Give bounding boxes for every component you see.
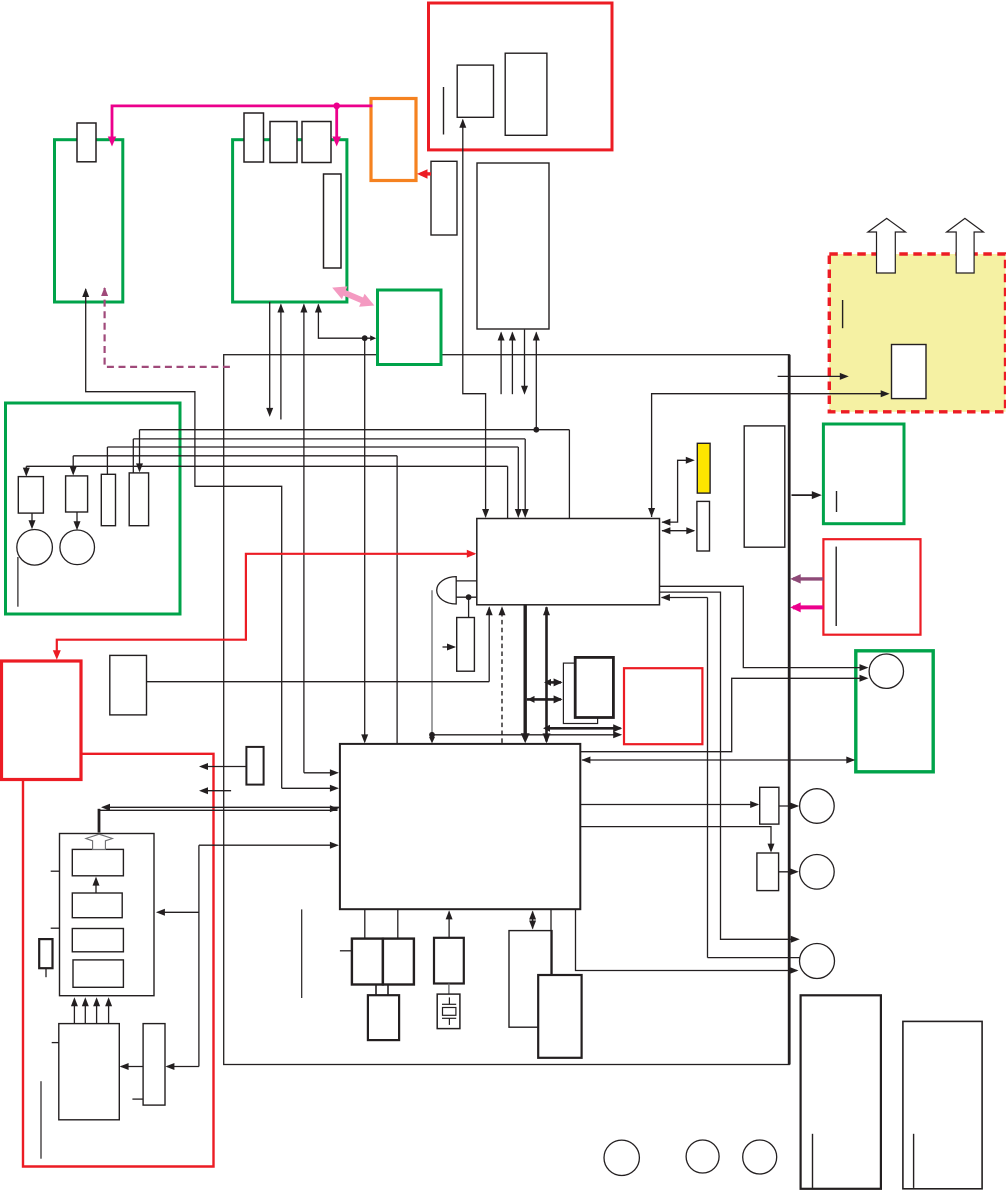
port box on green frame 1 [77, 123, 96, 162]
text mark in red frame [443, 87, 445, 135]
wire hub1 to box in yellow region [648, 390, 890, 517]
text mark in green frame A [836, 491, 838, 512]
short arrow pointing left [199, 787, 231, 794]
red wire hub1 to red box 5 [53, 550, 477, 660]
stub on left unit edge a [51, 870, 60, 872]
magenta clock wire [108, 103, 373, 147]
arrow into narrow box [443, 644, 457, 651]
arrow box A to circle 1 [29, 513, 36, 529]
wire green2 stub b [277, 304, 284, 420]
narrow box bottom-left [143, 1024, 165, 1106]
box below box pair [368, 995, 399, 1040]
relay box 1 [760, 787, 779, 824]
wire hub1 to small yellow box [661, 457, 694, 526]
red box 6 [624, 668, 702, 744]
small yellow box [697, 443, 710, 493]
bottom circle 3 [743, 1140, 777, 1174]
box below red frame [431, 161, 457, 235]
box 2 in red frame [505, 53, 547, 135]
tall box bottom right 1 [801, 995, 881, 1189]
wire green2 to hub2 [300, 304, 339, 777]
bidirectional wire hub1-hub2 [543, 606, 551, 743]
box pair left [352, 939, 383, 985]
stub below small thick box [45, 968, 47, 977]
pink bidirectional arrow [332, 286, 374, 306]
circle A [800, 789, 835, 824]
red frame right [823, 539, 920, 635]
wire from hub1 up into red frame [459, 119, 489, 518]
wire hub2 to relay box 1 [580, 801, 759, 808]
dashed status wire to green box 1 [101, 287, 233, 367]
bold arrow to stack b [527, 695, 563, 703]
port box A on green frame 2 [244, 113, 264, 162]
sub box 2 [72, 893, 122, 918]
box D in green frame 4 [129, 473, 148, 526]
crystal symbol [437, 994, 460, 1029]
wire green2 stub a [266, 302, 273, 417]
green frame 2 [233, 140, 347, 302]
wire bus line 2 [133, 439, 528, 518]
circle B [800, 855, 835, 890]
wire under tall box d to bus1 [533, 332, 540, 430]
hub box 2 [340, 744, 580, 909]
box C in green frame 4 [101, 474, 115, 525]
box mid-left [110, 655, 147, 715]
text mark in yellow region [842, 300, 844, 328]
wire crystal box to hub2 [446, 910, 453, 937]
sub box 4 [73, 960, 123, 987]
wire hub2 to thick box [550, 909, 552, 975]
wire hub1 to circle-c area [660, 592, 800, 943]
text mark in red frame right [835, 547, 837, 626]
text mark in tall box 2 [913, 1134, 915, 1188]
wire under tall box c [521, 330, 528, 395]
wire green2 to green box 3 and hub2 [315, 304, 376, 744]
crystal driver box [434, 938, 464, 984]
bold arrow to red box 6 [543, 724, 622, 732]
tall box bottom right 2 [903, 1021, 982, 1188]
orange box [371, 99, 416, 181]
green frame 3 [378, 290, 442, 365]
wire bus line 3 [107, 447, 521, 518]
magenta arrow from red frame [790, 602, 823, 612]
yellow dashed region [829, 254, 1005, 412]
small thick box left of unit [39, 939, 52, 968]
text mark below hub2 left [301, 909, 303, 998]
dashed wire into hub1 bottom [499, 606, 506, 744]
arrow into yellow region [778, 373, 849, 380]
wire under tall box b [509, 332, 516, 395]
thick box below hub2 [538, 975, 581, 1058]
outer boundary thick right edge [788, 355, 791, 1065]
sub box 1 [72, 849, 123, 875]
wire from green box 1 to hub 2 [82, 288, 339, 792]
stub to crystal [448, 984, 450, 995]
red outline around bottom-left unit [23, 754, 214, 1167]
stack box back [563, 663, 597, 723]
circle in green frame B [869, 654, 903, 688]
box 1 in red frame [457, 65, 493, 117]
box pair right [383, 939, 414, 985]
text mark in tall box 1 [812, 1134, 814, 1188]
narrow box below gate [457, 618, 475, 672]
narrow white box right of hub1 [697, 501, 710, 551]
bidirectional wire hub2 to box below [529, 911, 536, 930]
green frame A [823, 424, 904, 524]
box in yellow region [892, 345, 927, 399]
circle C [800, 944, 835, 979]
arrow to green frame A [792, 491, 822, 499]
bottom circle 1 [604, 1140, 639, 1175]
purple arrow from red frame [790, 574, 823, 584]
circle 1 in green frame 4 [17, 530, 53, 566]
stack box front [575, 657, 613, 717]
text mark in green frame 4 [17, 557, 19, 607]
port box B on green frame 2 [270, 122, 297, 163]
wire circle-c to hub1 [661, 594, 801, 958]
green frame 1 [55, 140, 123, 302]
outer system boundary box [224, 355, 790, 1065]
sub box 3 [72, 929, 123, 952]
block arrow in left unit [86, 834, 113, 849]
bottom circle 2 [686, 1140, 719, 1173]
left unit outer box [60, 834, 155, 996]
thick wire hub1 to hub2 [521, 605, 530, 743]
stub on narrow box bottom-left [132, 1098, 143, 1100]
block arrow up 2 [947, 218, 984, 273]
wire hub2 to relay box 2 [580, 827, 774, 853]
arrow box B to circle 2 [74, 512, 81, 530]
big box bottom-left [59, 1024, 120, 1120]
arrow relay box2 to circle B [779, 868, 799, 875]
green frame B [856, 651, 933, 772]
red box 5 [2, 661, 82, 780]
text mark bottom-left [40, 1081, 42, 1159]
arrows big box to left unit [71, 997, 112, 1023]
wire into left unit top [99, 804, 339, 833]
port box C on green frame 2 [302, 122, 331, 163]
wire under tall box a [498, 332, 505, 395]
circle 2 in green frame 4 [60, 530, 95, 565]
wire gate tip to hub2 [429, 590, 435, 743]
box B in green frame 4 [66, 476, 88, 512]
arrow relay box1 to circle A [779, 803, 799, 810]
block arrow up 1 [868, 218, 906, 273]
small box above hub2-left [246, 747, 263, 785]
wire bus line 1 [136, 427, 569, 519]
stub into box pair [340, 950, 352, 952]
bold arrow to stack a [544, 678, 563, 686]
box below hub2 right [509, 931, 552, 1028]
half-disc gate at hub1 left [437, 577, 477, 604]
wire bus line 5 [23, 466, 508, 518]
wire hub2 to circle 1 [580, 675, 868, 752]
wire hub2 to box pair b [397, 909, 399, 938]
wire hub2 to circle C [576, 909, 799, 974]
tall box inside green frame 2 [324, 174, 342, 268]
box A in green frame 4 [18, 477, 43, 513]
red frame top [429, 3, 613, 150]
stub on left unit edge b [51, 927, 60, 929]
stub on big box bottom-left [52, 1042, 59, 1044]
wire from left box into hub1 bottom [147, 606, 493, 681]
wire hub1 to circle 1 [660, 586, 869, 671]
wire gate to narrow box [468, 597, 470, 617]
tall box below red frame [477, 163, 549, 329]
red arrow into orange box [417, 169, 431, 179]
tall box right of hub1 [744, 426, 785, 547]
arrow from small box pointing left [199, 763, 246, 770]
wire dot-branch to red box 6 [432, 731, 622, 738]
bidirectional wire hub2 to green frame B [581, 757, 855, 764]
green frame 4 [6, 403, 181, 614]
arrow narrow box to big box [120, 1063, 144, 1070]
wire bus line 4 [70, 456, 397, 744]
wire hub2 to box pair a [364, 909, 366, 938]
wire hub2 to left unit and narrow box [156, 842, 339, 1070]
connectors below box pair [376, 985, 388, 996]
hub box 1 [477, 519, 660, 605]
arrow sub box 2 to sub box 1 [93, 877, 100, 893]
bidirectional arrow hub1 to narrow box [661, 527, 695, 534]
relay box 2 [757, 853, 779, 891]
